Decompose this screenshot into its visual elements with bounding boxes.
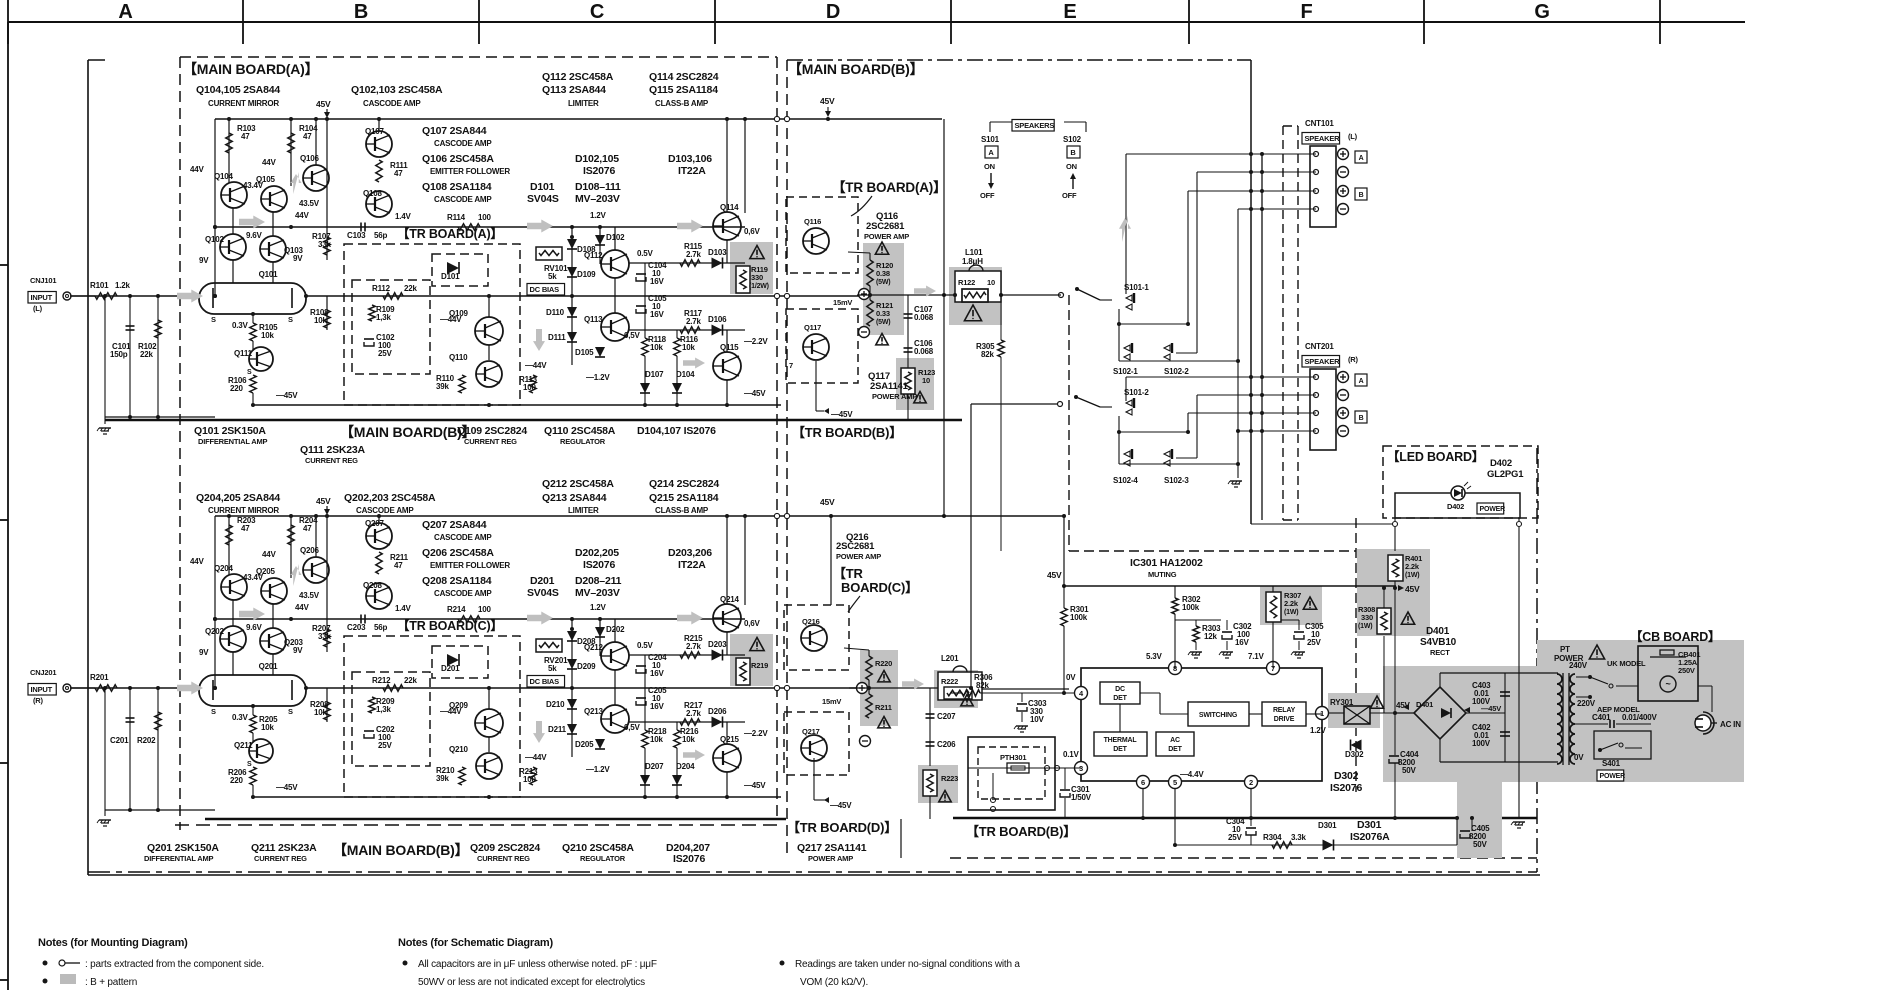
svg-text:Q215: Q215 <box>720 735 740 744</box>
svg-text:D209: D209 <box>577 662 596 671</box>
svg-text:Q109 2SC2824: Q109 2SC2824 <box>457 425 527 437</box>
svg-text:C203: C203 <box>347 623 366 632</box>
svg-text:1.2V: 1.2V <box>590 211 607 220</box>
svg-text:Q204: Q204 <box>214 564 234 573</box>
svg-text:3.3k: 3.3k <box>1291 833 1307 842</box>
svg-text:D204: D204 <box>676 762 695 771</box>
svg-text:IS2076: IS2076 <box>583 559 615 571</box>
svg-text:Notes (for Schematic Diagram): Notes (for Schematic Diagram) <box>398 937 553 949</box>
svg-text:ON: ON <box>1066 162 1077 171</box>
svg-text:【TR BOARD(B)】: 【TR BOARD(B)】 <box>792 425 902 440</box>
svg-text:12k: 12k <box>1204 632 1217 641</box>
svg-text:S: S <box>247 369 252 376</box>
svg-text:S101-2: S101-2 <box>1124 388 1149 397</box>
svg-text:Notes (for Mounting Diagram): Notes (for Mounting Diagram) <box>38 937 188 949</box>
svg-text:IS2076: IS2076 <box>1330 782 1362 794</box>
svg-text:—45V: —45V <box>831 410 853 419</box>
svg-text:D202,205: D202,205 <box>575 547 619 559</box>
svg-text:MV–203V: MV–203V <box>575 587 620 599</box>
svg-text:PT: PT <box>1560 645 1570 654</box>
svg-text:POWER AMP: POWER AMP <box>872 392 917 401</box>
svg-text:Q108: Q108 <box>363 189 383 198</box>
svg-text:Q211 2SK23A: Q211 2SK23A <box>251 842 317 854</box>
svg-text:2.7k: 2.7k <box>686 250 702 259</box>
svg-text:Q208: Q208 <box>363 581 383 590</box>
svg-text:CURRENT REG: CURRENT REG <box>464 437 517 446</box>
svg-text:25V: 25V <box>1228 833 1242 842</box>
svg-text:CURRENT REG: CURRENT REG <box>254 854 307 863</box>
svg-text:82k: 82k <box>976 681 989 690</box>
svg-text:【CB BOARD】: 【CB BOARD】 <box>1630 629 1720 644</box>
svg-text:G: G <box>1534 1 1549 23</box>
svg-text:45V: 45V <box>820 96 835 106</box>
svg-text:R304: R304 <box>1263 833 1282 842</box>
svg-text:RECT: RECT <box>1430 648 1450 657</box>
svg-text:D205: D205 <box>575 740 594 749</box>
svg-text:S: S <box>247 761 252 768</box>
svg-text:0.5V: 0.5V <box>637 641 654 650</box>
svg-text:LIMITER: LIMITER <box>568 506 599 515</box>
svg-text:IT22A: IT22A <box>678 165 706 177</box>
svg-text:CASCODE AMP: CASCODE AMP <box>356 506 414 515</box>
svg-text:AC IN: AC IN <box>1720 720 1741 729</box>
svg-text:—45V: —45V <box>276 783 298 792</box>
svg-text:Q202: Q202 <box>205 627 225 636</box>
svg-text:【TR BOARD(B)】: 【TR BOARD(B)】 <box>966 824 1076 839</box>
svg-text:2SC2681: 2SC2681 <box>866 221 905 232</box>
svg-text:16V: 16V <box>650 702 664 711</box>
svg-text:—2.2V: —2.2V <box>744 337 768 346</box>
svg-text:2: 2 <box>1249 778 1253 787</box>
svg-text:PTH301: PTH301 <box>1000 753 1026 762</box>
svg-text:240V: 240V <box>1569 661 1588 670</box>
svg-text:43.5V: 43.5V <box>299 591 320 600</box>
svg-text:9V: 9V <box>199 256 209 265</box>
svg-text:Q213: Q213 <box>584 707 604 716</box>
svg-text:(R): (R) <box>1348 355 1359 364</box>
svg-text:VOM (20 kΩ/V).: VOM (20 kΩ/V). <box>800 977 868 988</box>
svg-text:44V: 44V <box>295 211 309 220</box>
svg-text:CASCODE AMP: CASCODE AMP <box>434 533 492 542</box>
svg-text:0.068: 0.068 <box>914 347 934 356</box>
svg-text:DC: DC <box>1115 686 1125 693</box>
svg-text:Q110 2SC458A: Q110 2SC458A <box>544 425 616 437</box>
svg-text:10k: 10k <box>314 708 327 717</box>
svg-text:D109: D109 <box>577 270 596 279</box>
svg-text:S102-1: S102-1 <box>1113 367 1138 376</box>
svg-text:D401: D401 <box>1416 700 1433 709</box>
svg-text:D111: D111 <box>548 333 566 342</box>
svg-text:DIFFERENTIAL AMP: DIFFERENTIAL AMP <box>198 437 267 446</box>
svg-text:D208–211: D208–211 <box>575 575 622 587</box>
svg-text:Q210 2SC458A: Q210 2SC458A <box>562 842 634 854</box>
svg-text:S101: S101 <box>981 135 1000 144</box>
svg-text:44V: 44V <box>262 158 276 167</box>
svg-text:7: 7 <box>789 361 793 370</box>
svg-text:Q111: Q111 <box>234 349 253 358</box>
svg-text:Q115: Q115 <box>720 343 739 352</box>
svg-text:【TR BOARD(D)】: 【TR BOARD(D)】 <box>787 820 897 835</box>
svg-text:16V: 16V <box>1235 638 1249 647</box>
svg-text:Q201 2SK150A: Q201 2SK150A <box>147 842 219 854</box>
svg-text:—44V: —44V <box>440 707 462 716</box>
svg-text:1.4V: 1.4V <box>395 212 412 221</box>
svg-text:56p: 56p <box>374 623 387 632</box>
svg-text:5k: 5k <box>548 272 557 281</box>
svg-text:Q209 2SC2824: Q209 2SC2824 <box>470 842 540 854</box>
svg-text:10V: 10V <box>1030 715 1044 724</box>
svg-text:EMITTER FOLLOWER: EMITTER FOLLOWER <box>430 561 510 570</box>
svg-text:CASCODE AMP: CASCODE AMP <box>363 99 421 108</box>
svg-text:SPEAKER: SPEAKER <box>1305 357 1341 366</box>
svg-text:INPUT: INPUT <box>31 293 53 302</box>
svg-text:5: 5 <box>1173 778 1177 787</box>
svg-text:Q117: Q117 <box>804 323 821 332</box>
svg-text:IS2076: IS2076 <box>583 165 615 177</box>
svg-text:R222: R222 <box>941 677 958 686</box>
svg-text:Q114: Q114 <box>720 203 739 212</box>
svg-text:GL2PG1: GL2PG1 <box>1487 469 1524 480</box>
svg-text:R114: R114 <box>447 213 466 222</box>
svg-text:~: ~ <box>1665 679 1670 689</box>
svg-text:Q214: Q214 <box>720 595 740 604</box>
svg-text:CURRENT MIRROR: CURRENT MIRROR <box>208 506 279 515</box>
svg-text:REGULATOR: REGULATOR <box>560 437 606 446</box>
svg-text:【MAIN BOARD(A)】: 【MAIN BOARD(A)】 <box>183 61 318 77</box>
svg-text:22k: 22k <box>404 676 417 685</box>
svg-text:R211: R211 <box>875 703 892 712</box>
svg-text:47: 47 <box>394 561 403 570</box>
svg-text:D207: D207 <box>645 762 664 771</box>
svg-text:10: 10 <box>922 376 930 385</box>
svg-text:Q111 2SK23A: Q111 2SK23A <box>300 444 366 456</box>
svg-text:25V: 25V <box>378 741 392 750</box>
svg-text:THERMAL: THERMAL <box>1104 737 1138 744</box>
svg-text:0,5V: 0,5V <box>624 723 641 732</box>
svg-text:Q104: Q104 <box>214 172 234 181</box>
svg-text:10k: 10k <box>261 723 274 732</box>
svg-text:D101: D101 <box>530 181 555 193</box>
svg-text:【TR: 【TR <box>833 566 864 581</box>
svg-text:D201: D201 <box>441 664 460 673</box>
svg-text:1.8μH: 1.8μH <box>962 257 983 266</box>
svg-text:REGULATOR: REGULATOR <box>580 854 626 863</box>
svg-text:Q201: Q201 <box>259 662 279 671</box>
svg-text:L201: L201 <box>941 654 959 663</box>
svg-text:DET: DET <box>1113 695 1127 702</box>
svg-text:Q208 2SA1184: Q208 2SA1184 <box>422 575 492 587</box>
svg-text:Q207: Q207 <box>365 519 385 528</box>
svg-text:D203: D203 <box>708 640 727 649</box>
svg-text:POWER AMP: POWER AMP <box>864 232 909 241</box>
svg-text:SV04S: SV04S <box>527 587 559 599</box>
svg-text:56p: 56p <box>374 231 387 240</box>
svg-text:1.2V: 1.2V <box>590 603 607 612</box>
svg-text:【MAIN BOARD(B)】: 【MAIN BOARD(B)】 <box>333 842 468 858</box>
svg-text:OFF: OFF <box>980 191 995 200</box>
svg-text:C103: C103 <box>347 231 366 240</box>
svg-text:—45V: —45V <box>1481 704 1501 713</box>
svg-text:【LED BOARD】: 【LED BOARD】 <box>1387 449 1484 464</box>
svg-text:CNT101: CNT101 <box>1305 119 1334 128</box>
svg-text:16V: 16V <box>650 669 664 678</box>
svg-text:—44V: —44V <box>525 361 547 370</box>
svg-text:(L): (L) <box>33 304 43 313</box>
svg-text:16V: 16V <box>650 310 664 319</box>
svg-text:DC BIAS: DC BIAS <box>530 677 560 686</box>
svg-text:CNJ101: CNJ101 <box>30 276 56 285</box>
svg-text:—45V: —45V <box>744 389 766 398</box>
svg-text:R214: R214 <box>447 605 466 614</box>
svg-text:10k: 10k <box>261 331 274 340</box>
svg-text:9V: 9V <box>199 648 209 657</box>
svg-text:F: F <box>1300 1 1312 23</box>
svg-text:43.5V: 43.5V <box>299 199 320 208</box>
svg-text:39k: 39k <box>436 382 449 391</box>
svg-text:Q102,103 2SC458A: Q102,103 2SC458A <box>351 84 443 96</box>
svg-text:IS2076A: IS2076A <box>1350 831 1390 843</box>
svg-text:DC BIAS: DC BIAS <box>530 285 560 294</box>
svg-text:22k: 22k <box>140 350 153 359</box>
svg-text:—1.2V: —1.2V <box>586 765 610 774</box>
svg-text:47: 47 <box>241 132 250 141</box>
svg-text:44V: 44V <box>295 603 309 612</box>
svg-text:9V: 9V <box>293 646 303 655</box>
svg-text:D301: D301 <box>1318 821 1337 830</box>
svg-text:Q206 2SC458A: Q206 2SC458A <box>422 547 494 559</box>
svg-text:47: 47 <box>303 524 312 533</box>
svg-text:C207: C207 <box>937 712 956 721</box>
svg-text:D108–111: D108–111 <box>575 181 621 193</box>
svg-text:D104: D104 <box>676 370 695 379</box>
svg-text:: B + pattern: : B + pattern <box>85 977 137 988</box>
svg-text:CNJ201: CNJ201 <box>30 668 56 677</box>
svg-text:0.1V: 0.1V <box>1063 750 1080 759</box>
svg-text:CURRENT MIRROR: CURRENT MIRROR <box>208 99 279 108</box>
svg-text:Readings are taken under n: Readings are taken under no-signal condi… <box>795 959 1020 970</box>
svg-text:50V: 50V <box>1402 766 1416 775</box>
svg-text:R223: R223 <box>941 774 958 783</box>
svg-text:【TR BOARD(A)】: 【TR BOARD(A)】 <box>397 226 503 241</box>
svg-text:0.5V: 0.5V <box>637 249 654 258</box>
svg-text:All capacitors are in μF: All capacitors are in μF unless otherwis… <box>418 959 657 970</box>
svg-text:D210: D210 <box>546 700 565 709</box>
svg-text:D103,106: D103,106 <box>668 153 712 165</box>
svg-text:D102,105: D102,105 <box>575 153 619 165</box>
svg-text:UK MODEL: UK MODEL <box>1607 659 1646 668</box>
svg-text:45V: 45V <box>820 497 835 507</box>
svg-text:R202: R202 <box>137 736 156 745</box>
svg-text:Q204,205 2SA844: Q204,205 2SA844 <box>196 492 280 504</box>
svg-text:45V: 45V <box>1405 584 1420 594</box>
svg-text:Q116: Q116 <box>804 217 821 226</box>
svg-text:0.33: 0.33 <box>876 309 890 318</box>
svg-text:Q113 2SA844: Q113 2SA844 <box>542 84 606 96</box>
svg-text:POWER: POWER <box>1480 506 1506 513</box>
svg-text:0,5V: 0,5V <box>624 331 641 340</box>
svg-text:C: C <box>590 1 604 23</box>
svg-text:9.6V: 9.6V <box>246 623 263 632</box>
svg-text:Q101 2SK150A: Q101 2SK150A <box>194 425 266 437</box>
svg-text:1.2V: 1.2V <box>1310 726 1327 735</box>
svg-text:E: E <box>1063 1 1076 23</box>
svg-text:47: 47 <box>394 169 403 178</box>
svg-text:16V: 16V <box>650 277 664 286</box>
svg-text:1,3k: 1,3k <box>376 313 392 322</box>
svg-text:S: S <box>211 315 216 324</box>
svg-text:45V: 45V <box>1047 570 1062 580</box>
svg-text:D302: D302 <box>1334 770 1359 782</box>
svg-text:0,6V: 0,6V <box>744 227 761 236</box>
svg-text:10k: 10k <box>314 316 327 325</box>
svg-text:D402: D402 <box>1490 458 1512 469</box>
svg-text:43.4V: 43.4V <box>243 573 264 582</box>
svg-text:45V: 45V <box>316 99 331 109</box>
svg-text:R122: R122 <box>958 278 975 287</box>
svg-text:(1W): (1W) <box>1405 572 1419 579</box>
svg-text:33k: 33k <box>318 632 331 641</box>
svg-text:Q216: Q216 <box>802 617 820 626</box>
svg-text:D103: D103 <box>708 248 727 257</box>
svg-text:B: B <box>1359 415 1364 422</box>
svg-text:D107: D107 <box>645 370 664 379</box>
svg-text:Q113: Q113 <box>584 315 603 324</box>
svg-text:10: 10 <box>987 278 995 287</box>
svg-text:2.2k: 2.2k <box>1284 599 1299 608</box>
svg-text:Q217: Q217 <box>802 727 820 736</box>
svg-text:250V: 250V <box>1678 666 1695 675</box>
svg-text:330: 330 <box>1361 613 1373 622</box>
svg-text:DIFFERENTIAL AMP: DIFFERENTIAL AMP <box>144 854 213 863</box>
svg-text:【TR BOARD(A)】: 【TR BOARD(A)】 <box>832 180 946 195</box>
svg-text:SWITCHING: SWITCHING <box>1199 712 1238 719</box>
svg-text:100V: 100V <box>1472 739 1491 748</box>
svg-text:POWER AMP: POWER AMP <box>836 552 881 561</box>
svg-text:CASCODE AMP: CASCODE AMP <box>434 195 492 204</box>
svg-text:5.3V: 5.3V <box>1146 652 1163 661</box>
svg-text:(L): (L) <box>1348 132 1358 141</box>
svg-text:S4VB10: S4VB10 <box>1420 637 1457 648</box>
svg-text:C401: C401 <box>1592 713 1611 722</box>
svg-text:IS2076: IS2076 <box>673 853 705 865</box>
svg-text:S: S <box>211 707 216 716</box>
svg-text:A: A <box>118 1 132 23</box>
svg-text:Q207 2SA844: Q207 2SA844 <box>422 519 487 531</box>
svg-text:Q212 2SC458A: Q212 2SC458A <box>542 478 614 490</box>
svg-text:【TR BOARD(C)】: 【TR BOARD(C)】 <box>397 618 503 633</box>
svg-text:D106: D106 <box>708 315 727 324</box>
svg-text:100k: 100k <box>1182 603 1200 612</box>
svg-text:22k: 22k <box>404 284 417 293</box>
svg-text:50WV or less are not indi: 50WV or less are not indicated except fo… <box>418 977 645 988</box>
svg-text:100: 100 <box>523 775 536 784</box>
svg-text:Q110: Q110 <box>449 353 468 362</box>
svg-text:S102: S102 <box>1063 135 1082 144</box>
svg-text:D101: D101 <box>441 272 460 281</box>
svg-text:C206: C206 <box>937 740 956 749</box>
svg-text:220V: 220V <box>1577 699 1596 708</box>
svg-text:1.2k: 1.2k <box>115 281 131 290</box>
svg-text:D110: D110 <box>546 308 565 317</box>
svg-text:0V: 0V <box>1066 673 1076 682</box>
svg-text:1,3k: 1,3k <box>376 705 392 714</box>
svg-text:47: 47 <box>303 132 312 141</box>
svg-text:—4.4V: —4.4V <box>1180 770 1204 779</box>
svg-text:(1W): (1W) <box>1358 623 1372 630</box>
svg-text:0.01/400V: 0.01/400V <box>1622 713 1658 722</box>
svg-text:1.4V: 1.4V <box>395 604 412 613</box>
svg-text:10k: 10k <box>650 343 663 352</box>
svg-text:0.3V: 0.3V <box>232 713 249 722</box>
svg-text:IT22A: IT22A <box>678 559 706 571</box>
svg-text:SPEAKER: SPEAKER <box>1305 134 1341 143</box>
svg-text:0.068: 0.068 <box>914 313 934 322</box>
svg-text:(1/2W): (1/2W) <box>749 283 769 290</box>
svg-text:DET: DET <box>1113 746 1127 753</box>
svg-text:S: S <box>288 315 293 324</box>
svg-text:D206: D206 <box>708 707 727 716</box>
svg-text:25V: 25V <box>1307 638 1321 647</box>
svg-text:S102-3: S102-3 <box>1164 476 1189 485</box>
svg-text:S102-2: S102-2 <box>1164 367 1189 376</box>
svg-text:SPEAKERS: SPEAKERS <box>1015 121 1055 130</box>
svg-text:B: B <box>1070 148 1076 157</box>
svg-text:MV–203V: MV–203V <box>575 193 620 205</box>
svg-text:R201: R201 <box>90 673 109 682</box>
svg-text:R219: R219 <box>751 661 768 670</box>
svg-text:44V: 44V <box>262 550 276 559</box>
svg-text:150p: 150p <box>110 350 128 359</box>
svg-text:—45V: —45V <box>276 391 298 400</box>
svg-text:—1.2V: —1.2V <box>586 373 610 382</box>
svg-text:0V: 0V <box>1574 753 1584 762</box>
svg-text:—44V: —44V <box>525 753 547 762</box>
svg-text:45V: 45V <box>316 496 331 506</box>
svg-text:A: A <box>988 148 994 157</box>
svg-text:D301: D301 <box>1357 819 1382 831</box>
svg-text:D104,107 IS2076: D104,107 IS2076 <box>637 425 716 437</box>
svg-text:D402: D402 <box>1447 502 1464 511</box>
svg-text:EMITTER FOLLOWER: EMITTER FOLLOWER <box>430 167 510 176</box>
svg-text:Q104,105 2SA844: Q104,105 2SA844 <box>196 84 280 96</box>
svg-text:2.7k: 2.7k <box>686 317 702 326</box>
svg-text:2.7k: 2.7k <box>686 642 702 651</box>
svg-text:C201: C201 <box>110 736 129 745</box>
svg-text:Q114 2SC2824: Q114 2SC2824 <box>649 71 719 83</box>
svg-text:L101: L101 <box>965 248 983 257</box>
svg-text:(1W): (1W) <box>1284 609 1298 616</box>
svg-text:(5W): (5W) <box>876 279 890 286</box>
svg-text:—45V: —45V <box>830 801 852 810</box>
svg-text:Q106 2SC458A: Q106 2SC458A <box>422 153 494 165</box>
svg-text:【MAIN BOARD(B)】: 【MAIN BOARD(B)】 <box>340 424 475 440</box>
svg-text:CURRENT REG: CURRENT REG <box>305 456 358 465</box>
svg-text:2SA1141: 2SA1141 <box>870 381 909 392</box>
svg-text:CASCODE AMP: CASCODE AMP <box>434 589 492 598</box>
svg-text:Q213 2SA844: Q213 2SA844 <box>542 492 607 504</box>
svg-text:Q211: Q211 <box>234 741 253 750</box>
svg-text:BOARD(C)】: BOARD(C)】 <box>841 580 918 595</box>
svg-text:44V: 44V <box>190 557 204 566</box>
svg-text:(R): (R) <box>33 696 44 705</box>
svg-text:IC301 HA12002: IC301 HA12002 <box>1130 557 1203 569</box>
svg-text:: parts extracted from the co: : parts extracted from the component sid… <box>85 959 264 970</box>
svg-text:0.3V: 0.3V <box>232 321 249 330</box>
svg-text:Q107: Q107 <box>365 127 385 136</box>
svg-text:10k: 10k <box>682 343 695 352</box>
svg-text:SV04S: SV04S <box>527 193 559 205</box>
svg-text:D: D <box>826 1 840 23</box>
